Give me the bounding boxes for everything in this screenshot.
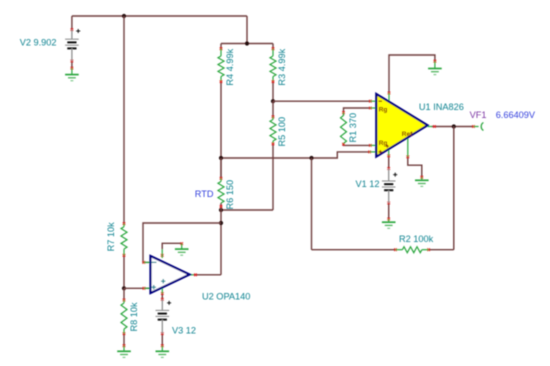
battery V3 label <box>172 326 196 336</box>
resistor R4 label <box>225 48 235 85</box>
wire U2 Vminus to ground <box>161 242 183 256</box>
ground V3 ground <box>156 346 170 358</box>
wire U1 output to probe <box>432 125 475 128</box>
wire plus-line horizontal <box>221 151 371 158</box>
probe VF1 label <box>470 110 487 120</box>
resistor R6 <box>218 178 224 203</box>
svg-text:R4 4.99k: R4 4.99k <box>225 48 235 85</box>
svg-text:R8 10k: R8 10k <box>129 302 139 332</box>
svg-text:R5 100: R5 100 <box>277 117 287 147</box>
resistor R2 label <box>399 234 434 244</box>
wire R6 bottom stub <box>220 203 223 210</box>
wire U1 Ref to ground <box>407 156 424 179</box>
node junction divider top <box>245 41 249 45</box>
wire U1 Vplus to battery V1 <box>387 155 390 170</box>
wire R4 top stub <box>220 44 223 51</box>
node junction output / R2 rail <box>452 124 456 128</box>
wire R6 top stub <box>220 158 223 180</box>
wire U1 minus input <box>273 100 372 103</box>
wire Rg bottom from R1 <box>342 143 372 147</box>
wire divider top horizontal <box>221 43 273 45</box>
svg-text:R6 150: R6 150 <box>225 180 235 210</box>
resistor R1 <box>341 113 347 144</box>
wire R7 top stub <box>123 222 126 225</box>
node junction top feed <box>122 14 126 18</box>
svg-text:U2 OPA140: U2 OPA140 <box>202 291 250 301</box>
wire U2 output <box>194 274 222 277</box>
node junction R3/R5/minus <box>271 99 275 103</box>
op-amp U2 OPA140 <box>144 249 194 293</box>
wire R8 top stub <box>123 288 126 301</box>
wire R5 top stub <box>272 101 275 118</box>
node junction RTD bottom <box>219 208 223 212</box>
svg-text:V3 12: V3 12 <box>172 326 196 336</box>
svg-text:V1 12: V1 12 <box>356 179 380 189</box>
resistor R5 <box>270 117 276 145</box>
node junction feedback tap <box>219 221 223 225</box>
resistor R8 <box>121 300 127 334</box>
wire R5 bottom down <box>272 144 274 210</box>
svg-text:R1 370: R1 370 <box>348 113 358 143</box>
wire U2 Vplus to battery V3 <box>161 292 164 300</box>
node junction RTD top / plus line <box>219 156 223 160</box>
resistor R7 label <box>106 222 116 252</box>
wire V3 bottom to ground <box>161 332 164 347</box>
wire R8 bottom to ground <box>123 332 126 347</box>
ground Ref ground <box>415 177 429 186</box>
wire R7 bottom to plus node <box>123 254 126 288</box>
probe VF1 voltage pin <box>474 123 484 131</box>
resistor R1 label <box>348 113 358 143</box>
resistor R8 label <box>129 302 139 332</box>
svg-text:R3 4.99k: R3 4.99k <box>277 48 287 85</box>
resistor R5 label <box>277 117 287 147</box>
wire U2 feedback to inverting input <box>143 223 222 264</box>
svg-text:U1 INA826: U1 INA826 <box>419 102 464 112</box>
battery V2 label <box>20 38 57 48</box>
wire bottom of divider to RTD junction <box>221 209 273 211</box>
battery V3 <box>156 299 172 333</box>
svg-text:6.66409V: 6.66409V <box>496 110 536 120</box>
resistor R6 label <box>225 180 235 210</box>
svg-text:Ref: Ref <box>402 131 413 138</box>
svg-text:Rg: Rg <box>379 107 388 114</box>
wire top horizontal from V2 to R4/R3 branch <box>72 15 247 17</box>
ground R8 ground <box>117 346 131 358</box>
ground U1 top supply ground <box>428 61 442 74</box>
svg-text:VF1: VF1 <box>470 110 487 120</box>
svg-text:R7 10k: R7 10k <box>106 222 116 252</box>
resistor R4 <box>218 49 224 83</box>
svg-text:V2 9.902: V2 9.902 <box>20 38 57 48</box>
ground V1 ground <box>382 219 396 228</box>
battery V1 label <box>356 179 380 189</box>
wire V2 bottom to ground <box>71 60 74 70</box>
wire V2 top lead <box>71 16 74 31</box>
resistor R7 <box>121 224 127 256</box>
wire R3 top stub <box>272 44 275 51</box>
wire R2 left connection <box>312 248 397 251</box>
wire V1 bottom to ground <box>387 202 390 221</box>
resistor R2 <box>396 247 429 253</box>
node junction plus line / feedback R2 <box>309 156 313 160</box>
wire RTD node down to U2 output <box>220 210 222 275</box>
wire U2 plus input <box>124 287 150 290</box>
wire top-right drop to divider <box>246 16 248 44</box>
wire R4 bottom to RTD column <box>220 82 222 179</box>
ground V2 ground <box>65 68 79 81</box>
op-amp U1 INA826 <box>370 93 432 157</box>
battery V1 <box>382 169 397 204</box>
node junction R7/R8/plus <box>122 286 126 290</box>
wire U1 Vminus to ground <box>388 55 437 94</box>
probe VF1 value <box>496 110 536 120</box>
op-amp U2 label <box>202 291 250 301</box>
svg-text:RTD: RTD <box>195 189 214 199</box>
ground U2 top supply ground <box>175 244 189 256</box>
wire R2 right connection <box>427 248 454 251</box>
resistor R3 label <box>277 48 287 85</box>
node RTD label <box>195 189 214 199</box>
wire left rail V2-node to R7 <box>123 16 125 224</box>
svg-text:R2 100k: R2 100k <box>399 234 434 244</box>
wire feedback rail from plus line <box>311 158 313 250</box>
wire R3 bottom to minus node <box>272 82 274 102</box>
resistor R3 <box>270 49 276 83</box>
wire Rg top from R1 <box>342 107 372 116</box>
battery V2 <box>65 29 80 61</box>
op-amp U1 label <box>419 102 464 112</box>
wire right rail down to R2 <box>453 127 455 250</box>
